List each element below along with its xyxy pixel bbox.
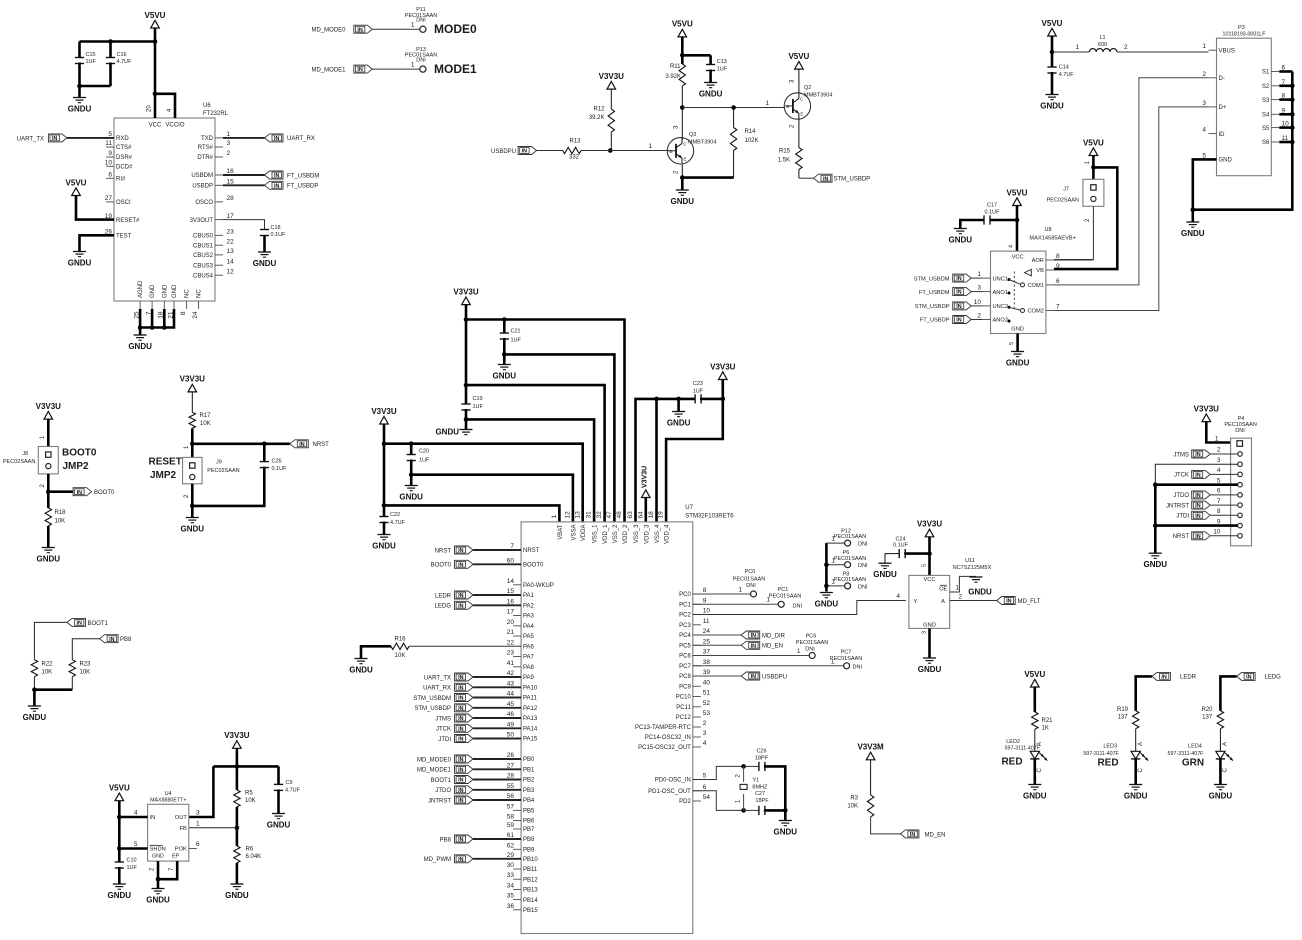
- svg-text:U8: U8: [1044, 227, 1051, 233]
- svg-text:15: 15: [507, 588, 515, 595]
- svg-text:1UF: 1UF: [86, 59, 97, 65]
- svg-text:POK: POK: [175, 847, 187, 853]
- svg-text:IN: IN: [1195, 493, 1200, 499]
- svg-text:1: 1: [196, 820, 200, 827]
- svg-text:PA2: PA2: [523, 604, 535, 610]
- svg-text:C27: C27: [755, 791, 765, 797]
- svg-text:JTDI: JTDI: [438, 737, 451, 743]
- svg-text:10: 10: [703, 608, 711, 615]
- svg-text:6: 6: [108, 172, 112, 179]
- svg-text:8: 8: [703, 587, 707, 594]
- svg-text:102K: 102K: [745, 138, 759, 144]
- svg-text:137: 137: [1118, 715, 1129, 721]
- svg-text:D+: D+: [1219, 105, 1227, 111]
- svg-text:PA7: PA7: [523, 655, 535, 661]
- svg-text:LED2: LED2: [1006, 739, 1020, 745]
- svg-text:UNC2: UNC2: [993, 304, 1009, 310]
- svg-text:57: 57: [507, 803, 515, 810]
- svg-text:VCC: VCC: [1012, 255, 1024, 261]
- svg-text:J9: J9: [216, 459, 222, 465]
- svg-text:49: 49: [507, 721, 515, 728]
- svg-text:9: 9: [703, 597, 707, 604]
- svg-text:R22: R22: [42, 662, 54, 668]
- svg-text:JMP2: JMP2: [63, 461, 90, 472]
- svg-text:PEC01SAAN: PEC01SAAN: [834, 577, 866, 583]
- svg-text:1: 1: [797, 648, 801, 655]
- svg-text:GNDU: GNDU: [699, 89, 723, 98]
- svg-text:PC13-TAMPER-RTC: PC13-TAMPER-RTC: [635, 725, 691, 731]
- svg-text:PA3: PA3: [523, 614, 535, 620]
- svg-text:DCD#: DCD#: [116, 165, 133, 171]
- svg-text:3V3OUT: 3V3OUT: [190, 218, 214, 224]
- svg-text:R18: R18: [55, 510, 67, 516]
- svg-text:10K: 10K: [395, 653, 406, 659]
- svg-text:IN: IN: [458, 603, 463, 609]
- svg-text:PA5: PA5: [523, 634, 535, 640]
- svg-text:MD_MODE0: MD_MODE0: [311, 28, 346, 34]
- svg-text:Q2: Q2: [804, 85, 811, 91]
- svg-text:V3V3U: V3V3U: [36, 402, 62, 411]
- svg-text:MMBT3904: MMBT3904: [804, 93, 832, 99]
- svg-text:GNDU: GNDU: [1181, 229, 1205, 238]
- svg-text:7: 7: [1217, 498, 1221, 505]
- svg-text:PB8: PB8: [440, 837, 452, 843]
- svg-text:J8: J8: [22, 451, 28, 457]
- svg-text:332: 332: [569, 155, 580, 161]
- svg-text:V3V3U: V3V3U: [371, 407, 397, 416]
- svg-text:V3V3U: V3V3U: [599, 72, 625, 81]
- svg-text:PEC01SAAN: PEC01SAAN: [834, 534, 866, 540]
- svg-text:IN: IN: [458, 837, 463, 843]
- svg-text:1: 1: [1215, 436, 1219, 443]
- svg-text:PB1: PB1: [523, 768, 535, 774]
- svg-text:1UF: 1UF: [693, 389, 704, 395]
- svg-text:GNDU: GNDU: [671, 197, 695, 206]
- svg-text:C25: C25: [272, 459, 282, 465]
- svg-text:PC1: PC1: [679, 603, 691, 609]
- svg-text:597-3311-407F: 597-3311-407F: [1168, 751, 1205, 757]
- svg-text:IN: IN: [956, 290, 961, 296]
- svg-text:S1: S1: [1262, 70, 1270, 76]
- svg-text:IN: IN: [458, 716, 463, 722]
- svg-text:47: 47: [606, 511, 613, 519]
- svg-text:V5VU: V5VU: [1024, 670, 1045, 679]
- svg-text:2: 2: [227, 150, 231, 157]
- svg-text:MD_MODE1: MD_MODE1: [417, 768, 452, 774]
- svg-text:S3: S3: [1262, 98, 1270, 104]
- svg-text:CBUS3: CBUS3: [193, 263, 214, 269]
- svg-text:IN: IN: [458, 706, 463, 712]
- svg-text:0.1UF: 0.1UF: [985, 210, 1001, 216]
- svg-text:MODE0: MODE0: [434, 22, 477, 36]
- svg-text:IN: IN: [274, 173, 279, 179]
- svg-text:PB6: PB6: [523, 819, 535, 825]
- svg-text:IN: IN: [458, 675, 463, 681]
- svg-text:LEDG: LEDG: [435, 604, 452, 610]
- svg-text:55: 55: [507, 783, 515, 790]
- svg-text:3: 3: [1202, 100, 1206, 107]
- svg-text:4: 4: [703, 740, 707, 747]
- svg-text:6.04K: 6.04K: [246, 854, 262, 860]
- svg-text:GNDU: GNDU: [128, 342, 152, 351]
- svg-text:VSS_1: VSS_1: [593, 524, 599, 543]
- svg-text:NRST: NRST: [523, 548, 540, 554]
- svg-text:S4: S4: [1262, 113, 1270, 119]
- svg-text:9: 9: [1056, 263, 1060, 270]
- svg-text:MD_MODE0: MD_MODE0: [417, 757, 452, 763]
- svg-text:C9: C9: [286, 780, 293, 786]
- svg-text:OSCO: OSCO: [195, 200, 213, 206]
- svg-text:R11: R11: [670, 64, 681, 70]
- svg-text:64: 64: [637, 511, 644, 519]
- svg-text:JTCK: JTCK: [436, 727, 451, 733]
- svg-text:C: C: [1223, 768, 1229, 773]
- svg-text:GNDU: GNDU: [1023, 791, 1047, 800]
- svg-text:1UF: 1UF: [473, 404, 484, 410]
- svg-text:1K: 1K: [1042, 726, 1049, 732]
- svg-text:137: 137: [1202, 715, 1213, 721]
- svg-text:A: A: [941, 599, 945, 605]
- svg-text:MD_PWM: MD_PWM: [424, 857, 451, 863]
- svg-text:2: 2: [1124, 44, 1128, 51]
- svg-text:C15: C15: [86, 52, 96, 58]
- svg-text:1: 1: [648, 143, 652, 150]
- svg-text:R12: R12: [593, 107, 605, 113]
- svg-text:RESET#: RESET#: [116, 218, 140, 224]
- svg-text:COM1: COM1: [1027, 283, 1043, 289]
- svg-text:ANO2: ANO2: [993, 318, 1009, 324]
- svg-text:PEC02SAAN: PEC02SAAN: [1046, 198, 1078, 204]
- svg-text:S5: S5: [1262, 126, 1270, 132]
- svg-text:IN: IN: [458, 685, 463, 691]
- svg-text:IN: IN: [1195, 534, 1200, 540]
- svg-text:IN: IN: [299, 442, 304, 448]
- svg-text:NRST: NRST: [435, 548, 452, 554]
- svg-text:6: 6: [196, 841, 200, 848]
- svg-text:IN: IN: [109, 637, 114, 643]
- svg-text:3: 3: [977, 285, 981, 292]
- svg-text:VDDA: VDDA: [581, 525, 587, 542]
- svg-text:USBDPU: USBDPU: [491, 149, 516, 155]
- svg-text:GNDU: GNDU: [918, 665, 942, 674]
- svg-text:39: 39: [703, 669, 711, 676]
- svg-text:2: 2: [977, 313, 981, 320]
- svg-text:1UF: 1UF: [419, 458, 430, 464]
- svg-text:GNDU: GNDU: [1124, 791, 1148, 800]
- svg-text:MD_EN: MD_EN: [925, 832, 946, 838]
- svg-text:DNI: DNI: [416, 18, 426, 24]
- svg-text:62: 62: [507, 842, 515, 849]
- svg-text:S2: S2: [1262, 84, 1270, 90]
- svg-text:PA4: PA4: [523, 624, 535, 630]
- svg-text:GNDU: GNDU: [399, 492, 423, 501]
- svg-text:43: 43: [507, 680, 515, 687]
- svg-text:R13: R13: [569, 139, 581, 145]
- svg-text:17: 17: [227, 213, 235, 220]
- svg-text:39.2K: 39.2K: [589, 115, 605, 121]
- svg-text:GNDU: GNDU: [774, 827, 798, 836]
- svg-text:V5VU: V5VU: [145, 11, 166, 20]
- svg-text:DTR#: DTR#: [197, 155, 213, 161]
- svg-text:EP: EP: [172, 854, 180, 860]
- svg-text:CBUS2: CBUS2: [193, 253, 214, 259]
- svg-text:RED: RED: [1001, 757, 1022, 768]
- svg-text:NC: NC: [197, 289, 203, 298]
- svg-text:P3: P3: [1238, 25, 1245, 31]
- svg-text:58: 58: [507, 814, 515, 821]
- svg-text:14: 14: [227, 258, 235, 265]
- svg-text:V5VU: V5VU: [1042, 19, 1063, 28]
- svg-text:R21: R21: [1042, 718, 1054, 724]
- svg-text:FB: FB: [180, 826, 187, 832]
- svg-text:NC: NC: [185, 289, 191, 298]
- svg-text:MD_DIR: MD_DIR: [762, 633, 786, 639]
- svg-text:C26: C26: [756, 749, 766, 755]
- svg-text:PEC02SAAN: PEC02SAAN: [3, 459, 35, 465]
- svg-text:56: 56: [507, 793, 515, 800]
- svg-text:R23: R23: [80, 662, 92, 668]
- svg-text:IN: IN: [458, 778, 463, 784]
- svg-text:PB9: PB9: [523, 848, 535, 854]
- svg-text:4: 4: [1217, 467, 1221, 474]
- svg-text:V3V3U: V3V3U: [710, 362, 736, 371]
- svg-text:JMP2: JMP2: [150, 470, 177, 481]
- svg-text:22: 22: [507, 639, 515, 646]
- svg-text:GNDU: GNDU: [493, 371, 517, 380]
- svg-text:VCC: VCC: [149, 123, 162, 129]
- svg-text:37: 37: [703, 649, 711, 656]
- svg-text:IN: IN: [956, 276, 961, 282]
- svg-text:BOOT1: BOOT1: [88, 621, 109, 627]
- svg-text:27: 27: [105, 195, 113, 202]
- svg-text:10K: 10K: [55, 519, 66, 525]
- svg-text:PB12: PB12: [523, 877, 538, 883]
- svg-text:PB14: PB14: [523, 898, 538, 904]
- svg-text:10K: 10K: [245, 798, 256, 804]
- svg-text:LEDR: LEDR: [435, 593, 452, 599]
- svg-text:V5VU: V5VU: [1007, 188, 1028, 197]
- svg-text:PA10: PA10: [523, 686, 538, 692]
- svg-text:RESET: RESET: [149, 457, 182, 468]
- svg-text:45: 45: [507, 701, 515, 708]
- svg-text:1UF: 1UF: [511, 338, 522, 344]
- svg-text:PC4: PC4: [679, 633, 691, 639]
- svg-text:V5VU: V5VU: [788, 52, 809, 61]
- svg-text:3: 3: [922, 631, 928, 634]
- svg-text:32: 32: [596, 511, 603, 519]
- svg-text:PB5: PB5: [523, 809, 535, 815]
- svg-text:R17: R17: [200, 413, 212, 419]
- svg-text:8: 8: [1056, 253, 1060, 260]
- svg-text:V3V3U: V3V3U: [453, 287, 479, 296]
- svg-text:20: 20: [147, 105, 153, 112]
- svg-text:MAX14585AEVB+: MAX14585AEVB+: [1029, 236, 1076, 242]
- svg-text:18: 18: [648, 511, 655, 519]
- svg-text:R14: R14: [745, 129, 757, 135]
- svg-text:8MHZ: 8MHZ: [752, 785, 768, 791]
- svg-text:PA9: PA9: [523, 675, 535, 681]
- svg-text:GNDU: GNDU: [68, 104, 92, 113]
- svg-text:FT_USBDM: FT_USBDM: [287, 173, 319, 179]
- svg-text:JTMS: JTMS: [1173, 452, 1189, 458]
- svg-text:PD1-OSC_OUT: PD1-OSC_OUT: [648, 789, 691, 795]
- svg-text:MMBT3904: MMBT3904: [688, 140, 716, 146]
- svg-text:OSCI: OSCI: [116, 200, 131, 206]
- svg-text:U4: U4: [165, 791, 172, 797]
- svg-text:GND: GND: [162, 284, 168, 298]
- svg-text:JNTRST: JNTRST: [1166, 503, 1189, 509]
- svg-text:R15: R15: [779, 149, 791, 155]
- svg-text:IN: IN: [751, 633, 756, 639]
- svg-text:25: 25: [703, 638, 711, 645]
- svg-text:USBDPU: USBDPU: [762, 674, 787, 680]
- svg-text:IN: IN: [274, 136, 279, 142]
- svg-text:DNI: DNI: [416, 58, 426, 64]
- svg-text:PB3: PB3: [523, 788, 535, 794]
- svg-text:IN: IN: [274, 183, 279, 189]
- svg-text:IN: IN: [458, 562, 463, 568]
- svg-text:FT_USBDP: FT_USBDP: [920, 318, 950, 324]
- svg-text:IN: IN: [751, 674, 756, 680]
- svg-text:JTMS: JTMS: [435, 716, 451, 722]
- svg-text:PC12: PC12: [676, 715, 692, 721]
- svg-text:C14: C14: [1059, 65, 1069, 71]
- svg-text:STM_USBDP: STM_USBDP: [915, 304, 950, 310]
- svg-text:48: 48: [616, 511, 623, 519]
- svg-text:DNI: DNI: [1235, 428, 1245, 434]
- svg-text:33: 33: [507, 872, 515, 879]
- svg-text:C23: C23: [693, 381, 703, 387]
- svg-text:10118193-0001LF: 10118193-0001LF: [1223, 32, 1267, 38]
- svg-text:IN: IN: [522, 149, 527, 155]
- svg-text:PA11: PA11: [523, 696, 537, 702]
- svg-text:GNDU: GNDU: [253, 259, 277, 268]
- svg-text:DNI: DNI: [805, 647, 815, 653]
- svg-text:C17: C17: [987, 203, 997, 209]
- svg-text:PB11: PB11: [523, 867, 538, 873]
- svg-text:PC7: PC7: [679, 664, 691, 670]
- svg-text:OUT: OUT: [175, 815, 188, 821]
- svg-text:UART_RX: UART_RX: [287, 136, 315, 142]
- svg-text:Q3: Q3: [689, 132, 696, 138]
- svg-text:4.7UF: 4.7UF: [285, 788, 301, 794]
- svg-text:31: 31: [586, 511, 593, 519]
- svg-text:CBUS0: CBUS0: [193, 234, 214, 240]
- svg-text:MD_FLT: MD_FLT: [1018, 599, 1041, 605]
- svg-text:13: 13: [574, 511, 581, 519]
- svg-text:PB10: PB10: [523, 857, 538, 863]
- svg-text:53: 53: [703, 710, 711, 717]
- svg-text:IN: IN: [458, 726, 463, 732]
- svg-text:11: 11: [703, 618, 710, 625]
- svg-text:PA14: PA14: [523, 727, 538, 733]
- svg-text:GNDU: GNDU: [108, 891, 132, 900]
- svg-text:PA12: PA12: [523, 706, 538, 712]
- svg-text:DNI: DNI: [858, 542, 868, 548]
- svg-text:12: 12: [565, 511, 572, 519]
- svg-text:GNDU: GNDU: [949, 235, 973, 244]
- svg-text:19: 19: [658, 511, 665, 519]
- svg-text:IN: IN: [1195, 452, 1200, 458]
- svg-text:STM_USBDM: STM_USBDM: [413, 696, 451, 702]
- svg-text:4.7UF: 4.7UF: [1059, 72, 1075, 78]
- svg-text:7: 7: [510, 543, 514, 550]
- svg-text:597-3111-407F: 597-3111-407F: [1083, 751, 1119, 757]
- svg-text:C22: C22: [390, 512, 400, 518]
- svg-text:21: 21: [507, 629, 515, 636]
- svg-text:IN: IN: [458, 757, 463, 763]
- svg-text:PC1: PC1: [778, 587, 789, 593]
- svg-text:34: 34: [507, 882, 515, 889]
- svg-text:V3V3U: V3V3U: [180, 375, 206, 384]
- svg-text:4: 4: [134, 810, 138, 817]
- svg-text:4.7UF: 4.7UF: [390, 520, 406, 526]
- svg-text:GNDU: GNDU: [815, 599, 839, 608]
- svg-text:GND: GND: [150, 284, 156, 298]
- svg-text:PD0-OSC_IN: PD0-OSC_IN: [655, 778, 691, 784]
- svg-text:IN: IN: [1195, 503, 1200, 509]
- svg-text:B: B: [786, 104, 789, 109]
- svg-text:PA0-WKUP: PA0-WKUP: [523, 583, 554, 589]
- svg-text:DNI: DNI: [793, 604, 803, 610]
- svg-text:9: 9: [1217, 518, 1221, 525]
- svg-text:PEC01SAAN: PEC01SAAN: [769, 594, 801, 600]
- svg-text:52: 52: [703, 700, 711, 707]
- svg-text:4: 4: [1202, 127, 1206, 134]
- svg-text:C: C: [1138, 768, 1144, 773]
- svg-text:GRN: GRN: [1182, 758, 1204, 769]
- svg-text:VBAT: VBAT: [558, 524, 564, 540]
- svg-text:LED3: LED3: [1103, 744, 1117, 750]
- svg-text:GNDU: GNDU: [372, 541, 396, 550]
- svg-text:PB13: PB13: [523, 888, 538, 894]
- svg-text:S6: S6: [1262, 140, 1270, 146]
- svg-text:5: 5: [922, 564, 928, 567]
- svg-text:6: 6: [703, 784, 707, 791]
- svg-text:VDD_2: VDD_2: [623, 524, 629, 544]
- svg-text:28: 28: [507, 773, 515, 780]
- svg-text:IN: IN: [1161, 675, 1166, 681]
- svg-text:GNDU: GNDU: [23, 713, 47, 722]
- svg-text:1: 1: [551, 515, 558, 519]
- svg-text:3.92K: 3.92K: [665, 74, 681, 80]
- svg-text:8: 8: [1217, 508, 1221, 515]
- svg-text:IN: IN: [751, 643, 756, 649]
- svg-text:IN: IN: [1195, 473, 1200, 479]
- svg-text:PC9: PC9: [679, 685, 691, 691]
- svg-text:PC8: PC8: [679, 674, 691, 680]
- svg-text:TEST: TEST: [116, 234, 132, 240]
- svg-text:GND: GND: [152, 854, 164, 860]
- svg-text:ID: ID: [1219, 132, 1226, 138]
- svg-text:1: 1: [1075, 44, 1079, 51]
- svg-text:59: 59: [507, 822, 515, 829]
- svg-text:17: 17: [507, 609, 515, 616]
- svg-text:D-: D-: [1219, 76, 1225, 82]
- svg-text:IN: IN: [1195, 513, 1200, 519]
- svg-text:23: 23: [507, 650, 515, 657]
- svg-text:E: E: [684, 156, 687, 161]
- svg-text:FT232RL: FT232RL: [203, 111, 229, 117]
- svg-text:GND: GND: [1219, 158, 1233, 164]
- svg-text:LEDG: LEDG: [1265, 675, 1282, 681]
- svg-text:PB8: PB8: [120, 637, 132, 643]
- svg-text:FT_USBDM: FT_USBDM: [919, 290, 950, 296]
- svg-text:24: 24: [192, 311, 199, 319]
- svg-text:VCCIO: VCCIO: [165, 123, 184, 129]
- svg-text:B: B: [670, 149, 673, 154]
- svg-text:597-3111-407F: 597-3111-407F: [1005, 746, 1041, 752]
